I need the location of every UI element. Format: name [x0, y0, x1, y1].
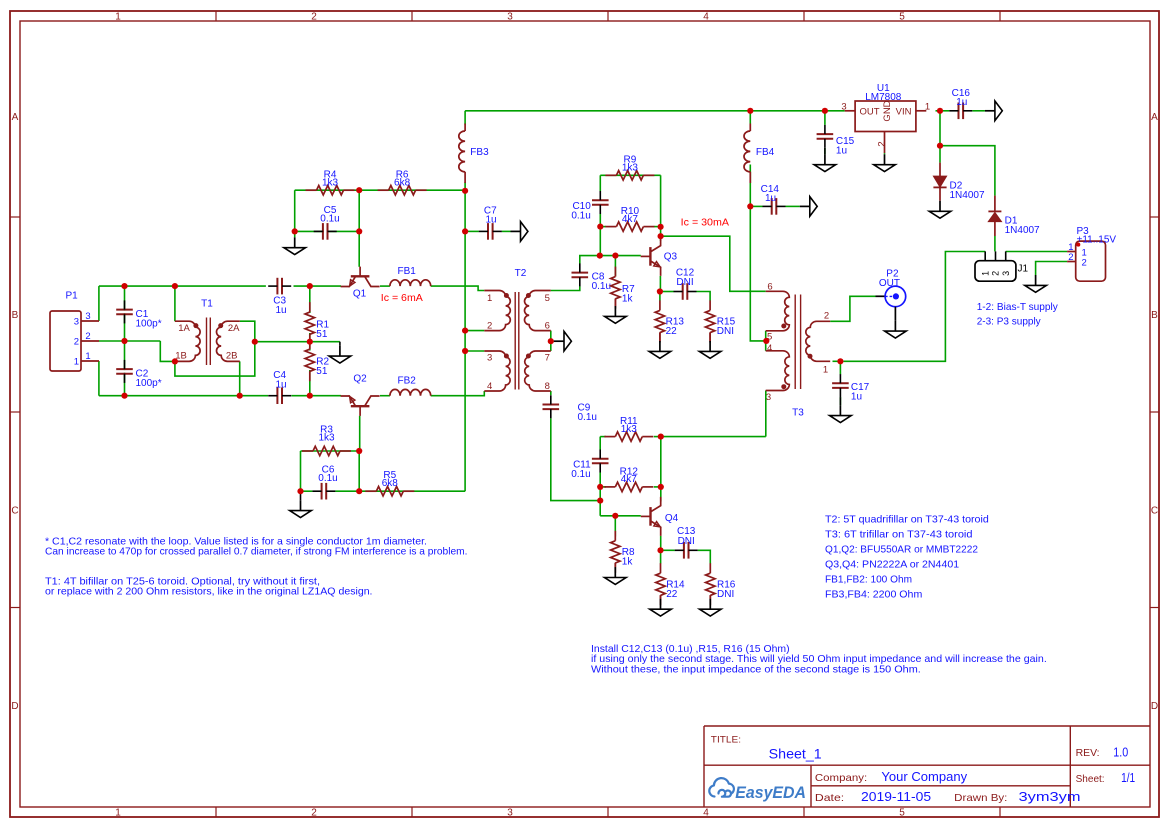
- svg-text:T2: 5T quadrifillar on T37-43: T2: 5T quadrifillar on T37-43 toroid: [825, 514, 989, 525]
- svg-text:1: 1: [487, 293, 492, 304]
- svg-text:1k: 1k: [622, 293, 634, 304]
- svg-text:Sheet_1: Sheet_1: [769, 747, 822, 763]
- wire C7 to port: [502, 230, 511, 232]
- wire Q3 collector rail: [660, 227, 662, 241]
- svg-text:DNI: DNI: [678, 536, 695, 547]
- svg-text:P1: P1: [66, 291, 79, 302]
- svg-text:Q1: Q1: [353, 289, 367, 300]
- svg-text:1: 1: [85, 351, 90, 362]
- wire P1 pin3 to top bus: [98, 286, 100, 321]
- transistor Q2: [341, 396, 380, 416]
- svg-text:1A: 1A: [178, 323, 190, 334]
- svg-text:1k3: 1k3: [318, 433, 335, 444]
- wire C10 to R10: [599, 214, 601, 227]
- junction dots: [121, 283, 127, 289]
- resistor R4: [306, 189, 317, 191]
- transformer T2: [484, 291, 510, 331]
- resistor R10: [605, 226, 616, 228]
- connector P3: [1076, 241, 1106, 281]
- svg-text:1u: 1u: [765, 193, 776, 204]
- ferrite bead FB2: [390, 389, 431, 395]
- svg-text:T1: 4T bifillar on T25-6 toroi: T1: 4T bifillar on T25-6 toroid. Optiona…: [45, 576, 320, 587]
- wire P1 pin2 to T1 1B: [99, 340, 160, 342]
- svg-text:Install C12,C13 (0.1u) ,R15, R: Install C12,C13 (0.1u) ,R15, R16 (15 Ohm…: [591, 644, 790, 655]
- svg-text:1: 1: [115, 808, 121, 819]
- capacitor C1: [116, 311, 133, 314]
- wire FB1 to T2 pin1: [431, 286, 485, 290]
- EasyEDA logo: [709, 778, 734, 797]
- ground at R15: [709, 332, 711, 341]
- ground at R8: [614, 563, 616, 567]
- wire J1 pin3 to P3 pin1: [1006, 251, 1067, 253]
- resistor R13: [659, 300, 661, 310]
- wire Q2 base riser: [359, 416, 361, 451]
- wire T1 1A riser: [174, 286, 176, 321]
- resistor R5: [365, 490, 376, 492]
- wire T1 2B to bottom bus: [239, 361, 241, 395]
- svg-text:C: C: [1151, 506, 1158, 517]
- wire R9 R10 right rail: [660, 175, 662, 227]
- wire R4 left rail: [294, 190, 296, 231]
- svg-text:6k8: 6k8: [382, 478, 399, 489]
- connector P2 OUT: [876, 295, 886, 297]
- port after C14: [800, 205, 810, 207]
- svg-text:VIN: VIN: [896, 107, 912, 118]
- ground at C5: [294, 231, 296, 237]
- svg-text:FB3,FB4: 2200 Ohm: FB3,FB4: 2200 Ohm: [825, 589, 922, 600]
- wire C5 row: [295, 230, 360, 232]
- svg-text:51: 51: [316, 366, 328, 377]
- wire R3 row: [301, 450, 360, 452]
- port at T2 center tap: [554, 340, 564, 342]
- svg-text:Q3: Q3: [664, 252, 678, 263]
- capacitor C10: [592, 201, 609, 204]
- wire C3 right to Q1 emitter: [294, 285, 342, 287]
- wire R1 top: [309, 286, 311, 313]
- svg-text:100p*: 100p*: [136, 378, 162, 389]
- capacitor C7: [489, 223, 492, 240]
- svg-text:2A: 2A: [228, 323, 240, 334]
- wire R1 R2 mid: [309, 333, 311, 351]
- svg-text:DNI: DNI: [676, 277, 693, 288]
- wire T2 pin3 tap: [465, 350, 484, 352]
- svg-text:3: 3: [507, 808, 513, 819]
- wire T3 pin3 feedback rail: [765, 391, 767, 437]
- wire Q4 base row: [600, 515, 641, 517]
- svg-text:REV:: REV:: [1076, 747, 1100, 759]
- svg-text:2: 2: [1068, 252, 1073, 263]
- svg-text:1k: 1k: [622, 557, 634, 568]
- svg-text:Q3,Q4: PN2222A or 2N4401: Q3,Q4: PN2222A or 2N4401: [825, 559, 959, 570]
- wire T3 pin5 pin4 link: [765, 331, 767, 351]
- svg-text:1: 1: [74, 356, 79, 367]
- svg-text:1/1: 1/1: [1121, 771, 1135, 785]
- resistor R11: [604, 436, 615, 438]
- capacitor C13: [685, 542, 688, 559]
- ferrite bead FB4: [744, 131, 750, 172]
- wire FB2 to T2 pin4: [431, 391, 485, 396]
- svg-text:2: 2: [487, 320, 492, 331]
- wire C17 bottom stub: [839, 397, 841, 405]
- svg-text:FB3: FB3: [470, 147, 489, 158]
- svg-text:6: 6: [767, 281, 772, 292]
- ground at U1 pin2: [884, 153, 886, 154]
- wire R4 R6 row: [295, 189, 465, 191]
- ground at C17: [839, 397, 841, 405]
- capacitor C3: [278, 278, 281, 295]
- wire D2 rail: [939, 111, 941, 163]
- wire FB4 top stub: [749, 111, 751, 124]
- svg-text:6: 6: [545, 320, 550, 331]
- wire U1 pin1 to C16 and D2: [936, 110, 950, 112]
- svg-text:1u: 1u: [275, 305, 286, 316]
- port after C7: [511, 230, 521, 232]
- svg-text:22: 22: [666, 589, 678, 600]
- svg-text:0.1u: 0.1u: [592, 281, 611, 292]
- wire top supply bus y=111: [465, 110, 845, 112]
- svg-text:OUT: OUT: [879, 278, 900, 289]
- capacitor C9: [542, 406, 559, 409]
- wire emitter junction to R14: [660, 550, 662, 563]
- capacitor C2: [116, 370, 133, 373]
- svg-text:A: A: [12, 112, 19, 123]
- svg-text:0.1u: 0.1u: [571, 211, 590, 222]
- wire R9 row: [600, 174, 660, 176]
- wire R8 top stub: [614, 516, 616, 537]
- svg-text:FB2: FB2: [398, 376, 417, 387]
- svg-text:FB1: FB1: [398, 266, 417, 277]
- wire emitter junction to C12: [660, 291, 674, 293]
- svg-text:1N4007: 1N4007: [950, 190, 985, 201]
- wire R3 C6 left rail: [300, 451, 302, 491]
- svg-text:C: C: [11, 506, 18, 517]
- svg-text:2: 2: [1082, 257, 1087, 268]
- svg-text:4: 4: [703, 808, 709, 819]
- svg-text:Date:: Date:: [815, 792, 844, 804]
- svg-text:3: 3: [487, 352, 492, 363]
- wire FB4 rail down to T3 pins 5 4: [750, 206, 766, 341]
- svg-text:3: 3: [74, 316, 79, 327]
- wire T1 2A to ground rail: [175, 321, 255, 376]
- wire top input bus y=286: [99, 285, 266, 287]
- svg-text:if using only the second stage: if using only the second stage. This wil…: [591, 654, 1047, 665]
- ferrite bead FB1: [390, 280, 431, 286]
- svg-text:B: B: [1151, 310, 1158, 321]
- svg-text:1.0: 1.0: [1113, 746, 1128, 760]
- ground at P2: [894, 307, 896, 321]
- wire C11 rail to base row: [599, 487, 601, 516]
- resistor R14: [660, 563, 662, 573]
- transistor Q4: [641, 497, 661, 536]
- svg-text:6k8: 6k8: [394, 177, 411, 188]
- wire R10 row: [600, 226, 606, 228]
- svg-text:0.1u: 0.1u: [318, 473, 337, 484]
- svg-text:51: 51: [316, 329, 328, 340]
- wire FB3 rail: [464, 111, 466, 125]
- svg-text:1u: 1u: [956, 97, 967, 108]
- svg-text:1N4007: 1N4007: [1005, 225, 1040, 236]
- svg-text:2: 2: [74, 336, 79, 347]
- wire FB4 bottom to C14 junction: [749, 165, 751, 207]
- wire C7 row: [465, 230, 479, 232]
- svg-text:Drawn By:: Drawn By:: [954, 792, 1007, 804]
- svg-text:1u: 1u: [851, 392, 862, 403]
- transistor Q1: [341, 267, 380, 287]
- wire C13 right to R16: [698, 550, 711, 563]
- wire R9 left rail: [599, 175, 601, 191]
- svg-text:D: D: [1151, 701, 1158, 712]
- svg-text:Company:: Company:: [815, 772, 867, 784]
- svg-text:1k3: 1k3: [621, 424, 638, 435]
- svg-text:5: 5: [899, 12, 905, 23]
- svg-text:0.1u: 0.1u: [578, 412, 597, 423]
- wire T3 pin1 to C17: [833, 360, 841, 362]
- svg-text:2019-11-05: 2019-11-05: [861, 789, 931, 804]
- svg-text:3: 3: [766, 392, 771, 403]
- ground at R1 R2 midpoint: [339, 342, 341, 346]
- svg-text:J1: J1: [1018, 264, 1029, 275]
- wire Q1 base riser: [358, 190, 360, 267]
- svg-text:5: 5: [899, 808, 905, 819]
- wire J1 pin1 to T3 pin1 loop: [844, 252, 986, 362]
- svg-text:4k7: 4k7: [621, 474, 638, 485]
- wire C4 right to Q2 emitter: [291, 395, 341, 397]
- wire T2 pin2 tap: [465, 330, 484, 332]
- wire R5 row: [335, 490, 465, 492]
- ground at C15: [824, 148, 826, 154]
- svg-text:1: 1: [115, 12, 121, 23]
- svg-text:B: B: [12, 310, 19, 321]
- svg-text:Without these, the input imped: Without these, the input impedance of th…: [591, 665, 921, 676]
- svg-text:2-3: P3 supply: 2-3: P3 supply: [977, 316, 1042, 327]
- svg-text:3: 3: [507, 12, 513, 23]
- svg-text:T2: T2: [515, 268, 527, 279]
- wire emitter junction to R13: [659, 292, 661, 301]
- wire R11 left rail: [599, 437, 601, 450]
- wire P1 pin1 to bottom bus: [98, 361, 100, 396]
- svg-text:GND: GND: [882, 100, 893, 121]
- svg-text:4: 4: [703, 12, 709, 23]
- ground at R16: [709, 595, 711, 599]
- resistor R2: [309, 339, 311, 349]
- capacitor C6: [323, 483, 326, 500]
- transistor Q3: [641, 237, 661, 276]
- svg-text:FB4: FB4: [756, 147, 775, 158]
- svg-text:2B: 2B: [226, 350, 238, 361]
- svg-text:1u: 1u: [485, 214, 496, 225]
- resistor R15: [709, 300, 711, 310]
- wire C14 to port: [750, 205, 762, 207]
- wire R11 feedback row: [661, 436, 766, 438]
- svg-text:5: 5: [545, 293, 550, 304]
- svg-text:D: D: [11, 701, 18, 712]
- svg-text:1k3: 1k3: [322, 177, 339, 188]
- resistor R1: [309, 302, 311, 312]
- wire T2 pin5 to C8: [551, 286, 580, 290]
- wire emitter junction to C13: [661, 549, 675, 551]
- svg-text:2: 2: [85, 331, 90, 342]
- ground at R14: [660, 595, 662, 599]
- wire R11 R12 right rail: [660, 437, 662, 487]
- svg-text:Ic = 6mA: Ic = 6mA: [381, 293, 423, 304]
- resistor R3: [302, 450, 313, 452]
- wire C17 top stub: [839, 361, 841, 374]
- svg-text:1: 1: [823, 365, 828, 376]
- svg-text:2: 2: [311, 12, 317, 23]
- resistor R16: [709, 563, 711, 573]
- capacitor C4: [278, 387, 281, 404]
- svg-text:1u: 1u: [836, 146, 847, 157]
- svg-text:3: 3: [85, 311, 90, 322]
- svg-text:T3: 6T trifillar on T37-43 tor: T3: 6T trifillar on T37-43 toroid: [825, 529, 973, 540]
- wire R11 row: [600, 436, 606, 438]
- svg-text:4: 4: [487, 381, 492, 392]
- svg-text:FB1,FB2: 100 Ohm: FB1,FB2: 100 Ohm: [825, 574, 912, 585]
- wire Q4 emitter to junction: [660, 536, 662, 550]
- svg-text:Sheet:: Sheet:: [1076, 773, 1105, 785]
- diode D2 1N4007: [939, 163, 941, 177]
- svg-text:0.1u: 0.1u: [320, 213, 339, 224]
- connector P1: [50, 311, 81, 371]
- wire Q3 collector tap to T3 pin6: [661, 236, 766, 291]
- svg-text:T1: T1: [201, 298, 213, 309]
- svg-text:OUT: OUT: [860, 107, 880, 118]
- svg-text:or replace with 2 200 Ohm resi: or replace with 2 200 Ohm resistors, lik…: [45, 587, 373, 598]
- capacitor C15: [817, 135, 834, 138]
- ground at D2: [939, 200, 941, 202]
- capacitor C14: [773, 198, 776, 215]
- ferrite bead FB3: [459, 131, 465, 172]
- svg-text:2: 2: [877, 141, 888, 146]
- wire Q2 collector to FB2: [380, 395, 390, 397]
- svg-text:Can increase to 470p for cross: Can increase to 470p for crossed paralle…: [45, 547, 468, 558]
- svg-text:Ic = 30mA: Ic = 30mA: [681, 217, 729, 228]
- transformer T3: [766, 291, 790, 330]
- wire C9 bottom to Q4 left rail: [551, 418, 600, 500]
- capacitor C11: [592, 460, 609, 463]
- wire C12 right to R15: [697, 292, 711, 301]
- svg-text:Q2: Q2: [353, 374, 367, 385]
- svg-text:Q1,Q2: BFU550AR or MMBT2222: Q1,Q2: BFU550AR or MMBT2222: [825, 544, 978, 555]
- svg-text:4k7: 4k7: [622, 214, 639, 225]
- wire Q3 emitter to junction: [659, 276, 661, 292]
- wire C1 stack: [124, 286, 126, 341]
- transformer T1: [175, 321, 200, 361]
- svg-text:Q4: Q4: [665, 513, 679, 524]
- svg-text:T3: T3: [792, 408, 804, 419]
- svg-text:* C1,C2 resonate with the loop: * C1,C2 resonate with the loop. Value li…: [45, 536, 427, 547]
- capacitor C16: [960, 102, 963, 119]
- resistor R7: [614, 267, 616, 277]
- svg-text:8: 8: [545, 381, 550, 392]
- wire C6 row: [301, 490, 313, 492]
- connector J1: [975, 261, 1016, 282]
- svg-text:1u: 1u: [275, 379, 286, 390]
- svg-text:100p*: 100p*: [136, 319, 162, 330]
- svg-text:1k3: 1k3: [622, 163, 639, 174]
- resistor R8: [614, 531, 616, 541]
- svg-text:DNI: DNI: [717, 326, 734, 337]
- wire C15 stub: [824, 111, 826, 125]
- svg-text:2: 2: [824, 311, 829, 322]
- svg-text:2: 2: [991, 271, 1001, 276]
- svg-text:2: 2: [311, 808, 317, 819]
- svg-text:A: A: [1151, 112, 1158, 123]
- wire D1 to J1 pin2: [994, 236, 996, 251]
- svg-text:+11..15V: +11..15V: [1077, 234, 1117, 245]
- ground at R7: [614, 299, 616, 306]
- port after C16: [985, 110, 995, 112]
- ground at P3 pin2: [1035, 275, 1037, 285]
- svg-text:3: 3: [1001, 271, 1011, 276]
- wire Q4 collector rail: [660, 487, 662, 502]
- voltage regulator U1 LM7808: [855, 101, 916, 132]
- wire ground rail to R1 R2 midpoint: [255, 341, 340, 343]
- wire R7 top stub: [614, 256, 616, 277]
- wire C10 rail down to base row: [599, 227, 601, 256]
- wire T2 pin8 to C9: [550, 391, 552, 395]
- wire R12 row: [600, 486, 606, 488]
- wire Q1 collector to FB1: [380, 285, 390, 287]
- svg-text:DNI: DNI: [717, 589, 734, 600]
- resistor R12: [604, 486, 615, 488]
- wire R2 bottom: [309, 370, 311, 396]
- ground at C6: [300, 491, 302, 500]
- wire bottom bus y=396: [99, 395, 268, 397]
- wire P3 pin2 to ground: [1036, 262, 1068, 276]
- ground at R13: [659, 332, 661, 341]
- svg-text:1: 1: [925, 101, 930, 112]
- svg-text:22: 22: [666, 326, 678, 337]
- svg-text:TITLE:: TITLE:: [711, 735, 741, 746]
- svg-text:7: 7: [545, 352, 550, 363]
- svg-text:EasyEDA: EasyEDA: [735, 784, 806, 802]
- capacitor C5: [324, 223, 327, 240]
- wire C8 top to Q3 base row: [580, 256, 641, 264]
- svg-text:1: 1: [980, 271, 990, 276]
- svg-text:0.1u: 0.1u: [571, 469, 590, 480]
- svg-text:Your Company: Your Company: [881, 769, 967, 784]
- wire D2 tap to D1: [940, 146, 995, 196]
- capacitor C12: [684, 283, 687, 300]
- svg-text:3ym3ym: 3ym3ym: [1019, 789, 1081, 804]
- diode D1 1N4007: [994, 196, 996, 212]
- resistor R6: [378, 189, 389, 191]
- resistor R9: [605, 174, 616, 176]
- capacitor C8: [571, 274, 588, 277]
- capacitor C17: [832, 384, 849, 387]
- svg-text:1-2: Bias-T supply: 1-2: Bias-T supply: [977, 302, 1059, 313]
- wire T2 pin6 pin7 link and port tap: [550, 331, 552, 351]
- wire T3 pin2 to P2: [830, 296, 875, 321]
- title block: [704, 726, 1150, 807]
- svg-text:4: 4: [767, 343, 772, 354]
- svg-text:3: 3: [841, 101, 846, 112]
